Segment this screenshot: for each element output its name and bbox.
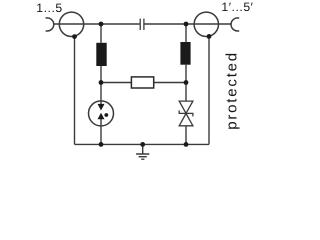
svg-text:1′...5′: 1′...5′ <box>221 0 253 14</box>
svg-text:1...5: 1...5 <box>36 1 62 15</box>
svg-text:protected: protected <box>224 51 241 130</box>
